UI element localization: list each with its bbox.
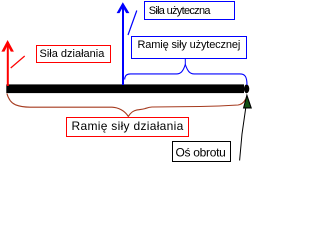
svg-text:Siła działania: Siła działania — [40, 48, 106, 60]
svg-text:Ramię siły działania: Ramię siły działania — [72, 119, 184, 133]
svg-text:Siła użyteczna: Siła użyteczna — [149, 5, 212, 17]
svg-text:Ramię siły użytecznej: Ramię siły użytecznej — [138, 39, 241, 51]
svg-text:Oś obrotu: Oś obrotu — [176, 146, 226, 160]
